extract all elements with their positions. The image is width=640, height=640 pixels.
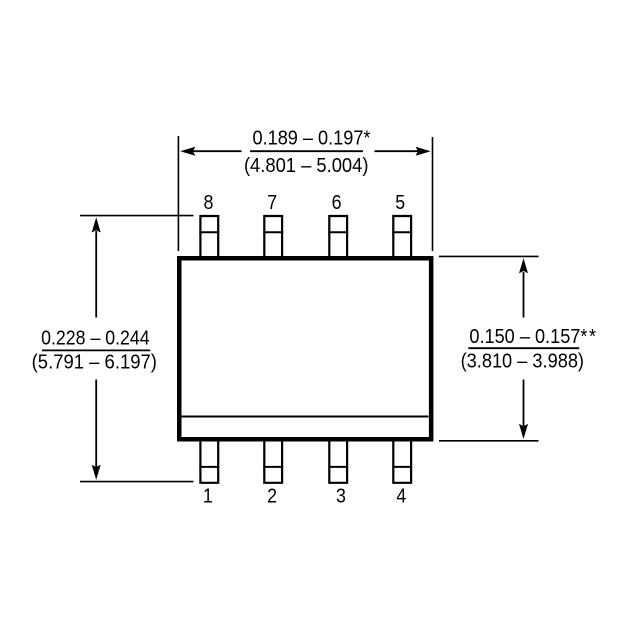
body height arrowhead down: [519, 424, 528, 439]
svg-text:3: 3: [336, 486, 346, 508]
svg-text:5: 5: [395, 192, 405, 214]
body height extension line top right: [439, 255, 539, 257]
pin 2 lead: [264, 438, 282, 483]
pin 7 lead: [264, 216, 282, 259]
svg-text:(4.801 – 5.004): (4.801 – 5.004): [244, 155, 369, 177]
body height dimension line lower segment: [523, 380, 525, 427]
body height extension line bottom right: [439, 440, 539, 442]
svg-text:2: 2: [267, 486, 277, 508]
width fraction bar: [250, 150, 363, 152]
body seating plane line: [182, 416, 429, 418]
svg-text:4: 4: [396, 486, 406, 508]
width dimension line left segment: [192, 150, 242, 152]
overall height dimension line upper segment: [95, 231, 97, 318]
svg-text:7: 7: [267, 192, 277, 214]
pin 1 lead: [200, 438, 218, 483]
pin 6 lead: [329, 216, 347, 259]
height dimension extension line top left: [80, 215, 194, 217]
svg-text:0.189 – 0.197*: 0.189 – 0.197*: [253, 128, 371, 150]
svg-text:0.150 – 0.157* *: 0.150 – 0.157* *: [469, 326, 596, 348]
overall height dimension line lower segment: [95, 380, 97, 469]
overall height arrowhead up: [92, 217, 101, 232]
svg-text:0.228 – 0.244: 0.228 – 0.244: [41, 327, 150, 349]
width dimension line right segment: [375, 150, 420, 152]
package body outline: [179, 258, 431, 439]
height dimension extension line bottom left: [80, 481, 194, 483]
width dimension extension line right: [432, 137, 434, 251]
width dimension arrowhead left: [180, 147, 195, 156]
overall height fraction bar: [42, 349, 150, 351]
pin 8 lead: [200, 216, 218, 259]
svg-text:1: 1: [203, 486, 213, 508]
width dimension arrowhead right: [416, 147, 431, 156]
body height dimension line upper segment: [523, 272, 525, 318]
overall height arrowhead down: [92, 465, 101, 480]
pin 3 lead: [329, 438, 347, 483]
width dimension extension line left: [177, 136, 179, 251]
svg-text:(3.810 – 3.988): (3.810 – 3.988): [461, 351, 584, 373]
body height arrowhead up: [519, 258, 528, 273]
body height fraction bar: [468, 347, 579, 349]
pin 5 lead: [393, 216, 411, 259]
svg-text:(5.791 – 6.197): (5.791 – 6.197): [32, 352, 157, 374]
svg-text:6: 6: [332, 192, 342, 214]
svg-text:8: 8: [203, 192, 213, 214]
pin 4 lead: [393, 438, 411, 483]
